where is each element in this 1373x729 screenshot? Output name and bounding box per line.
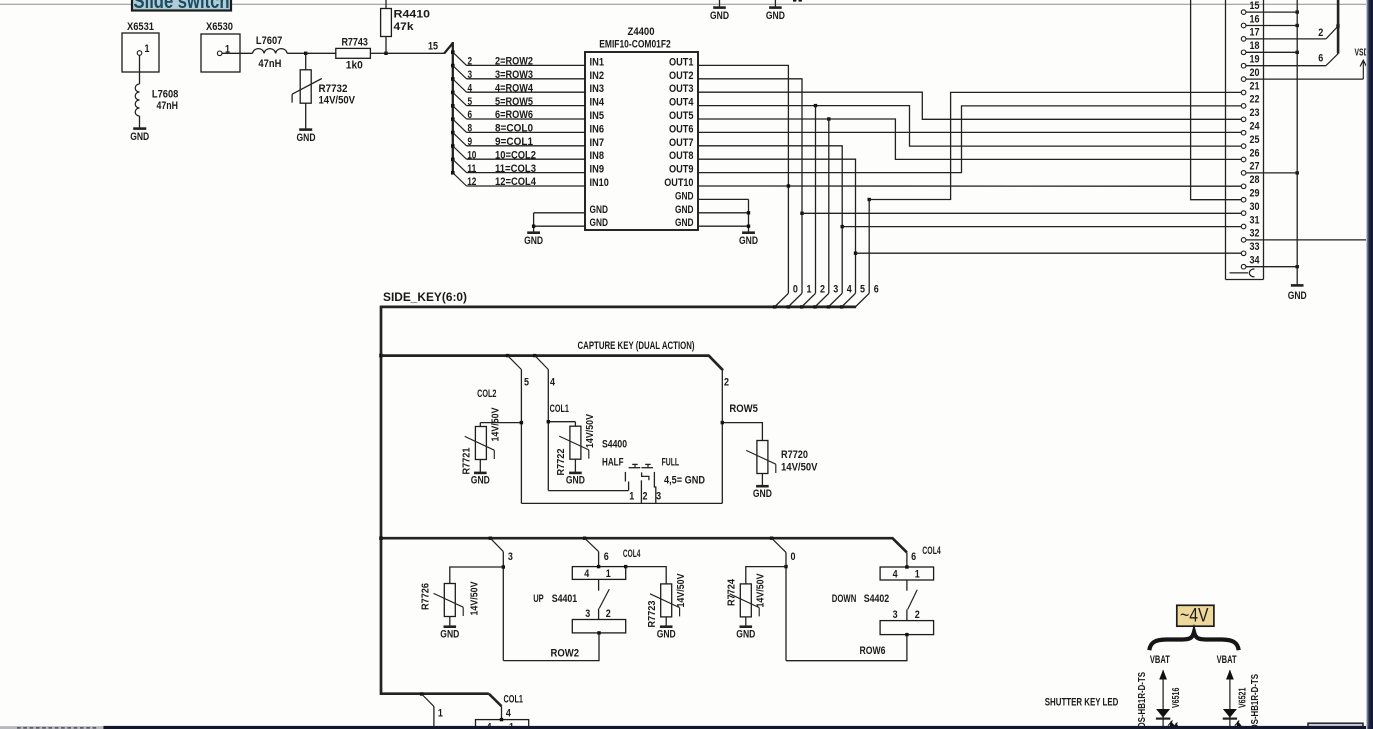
svg-text:22: 22 bbox=[1250, 94, 1260, 106]
connector pin 22 bbox=[1241, 104, 1246, 109]
ground GND (top 1) bbox=[710, 0, 729, 22]
svg-text:2: 2 bbox=[468, 56, 473, 68]
svg-text:GND: GND bbox=[440, 629, 459, 641]
svg-text:20: 20 bbox=[1250, 67, 1260, 79]
svg-text:1: 1 bbox=[629, 491, 634, 503]
svg-text:GND: GND bbox=[566, 475, 585, 487]
wire side-key 6 vertical bbox=[868, 200, 870, 294]
svg-text:18: 18 bbox=[1250, 40, 1260, 52]
junction side-key 2 tap bbox=[814, 104, 817, 107]
connector pin 32 bbox=[1241, 238, 1246, 243]
connector X6531 bbox=[122, 21, 159, 72]
svg-text:2: 2 bbox=[1318, 27, 1323, 39]
svg-text:OUT1: OUT1 bbox=[669, 56, 694, 68]
svg-text:IN2: IN2 bbox=[590, 70, 605, 82]
ground GND (IC right) bbox=[739, 233, 758, 247]
wire R7726 to ground bbox=[449, 617, 451, 627]
svg-text:R7723: R7723 bbox=[646, 600, 658, 627]
wire side-key 5 to connector pin 33 bbox=[856, 252, 1242, 254]
svg-text:14V/50V: 14V/50V bbox=[469, 582, 481, 616]
side-key 0 drop diagonal bbox=[773, 305, 776, 308]
wire pin18 to GND rail bbox=[1246, 51, 1297, 53]
svg-text:6: 6 bbox=[1318, 53, 1323, 65]
connector pin 33 bbox=[1241, 251, 1246, 256]
junction branch0 / R7724 bbox=[784, 565, 787, 568]
connector pin 23 bbox=[1241, 117, 1246, 122]
svg-text:SHUTTER KEY LED: SHUTTER KEY LED bbox=[1045, 697, 1119, 709]
svg-text:V6521: V6521 bbox=[1237, 687, 1249, 708]
svg-text:2: 2 bbox=[724, 377, 729, 389]
partial box bottom-right bbox=[1308, 723, 1363, 729]
wire R7732 to ground bbox=[305, 103, 307, 129]
svg-text:0: 0 bbox=[791, 551, 796, 563]
svg-text:11=COL3: 11=COL3 bbox=[495, 163, 536, 175]
keypad row 5=ROW5 wire bbox=[451, 91, 585, 108]
connector X6530 bbox=[201, 21, 240, 72]
svg-text:2: 2 bbox=[606, 608, 611, 620]
svg-text:GND: GND bbox=[524, 235, 543, 247]
svg-text:GND: GND bbox=[471, 475, 490, 487]
svg-text:19: 19 bbox=[1250, 54, 1260, 66]
svg-text:5=ROW5: 5=ROW5 bbox=[495, 96, 533, 108]
wire side-key 6 to connector pin 21 bbox=[869, 92, 1241, 199]
svg-text:12: 12 bbox=[467, 176, 476, 188]
switch S4401 UP bbox=[533, 565, 627, 635]
wire branch2 vertical bbox=[721, 370, 723, 504]
cut-off marks top bbox=[793, 0, 796, 2]
svg-text:DOWN: DOWN bbox=[832, 593, 857, 605]
keypad row 11=COL3 wire bbox=[451, 158, 585, 175]
svg-text:R7743: R7743 bbox=[341, 37, 368, 49]
wire L7608 to ground bbox=[139, 116, 141, 129]
svg-text:GND: GND bbox=[675, 190, 694, 202]
svg-text:27: 27 bbox=[1250, 161, 1260, 173]
svg-text:HALF: HALF bbox=[602, 456, 624, 468]
svg-text:10=COL2: 10=COL2 bbox=[495, 149, 536, 161]
connector pin 21 bbox=[1241, 90, 1246, 95]
LED V6516 DS-HB1R-D-TS bbox=[1136, 670, 1182, 729]
junction side-key 3 tap bbox=[827, 117, 830, 120]
svg-text:OUT7: OUT7 bbox=[669, 137, 694, 149]
IC Z4400 EMIF10-COM01F2 EMI filter bbox=[585, 26, 698, 230]
svg-text:S4400: S4400 bbox=[602, 439, 627, 451]
svg-text:2: 2 bbox=[643, 491, 648, 503]
svg-text:4=ROW4: 4=ROW4 bbox=[495, 82, 534, 94]
svg-text:1: 1 bbox=[438, 708, 443, 720]
svg-text:GND: GND bbox=[590, 204, 609, 216]
connector pin 24 bbox=[1241, 130, 1246, 135]
svg-text:COL1: COL1 bbox=[550, 403, 569, 415]
svg-text:29: 29 bbox=[1250, 188, 1260, 200]
wire OUT3 to connector pin 23 bbox=[698, 92, 1241, 119]
svg-text:21: 21 bbox=[1250, 80, 1260, 92]
wire pin17 to slide switch pos 2 bbox=[1246, 38, 1326, 40]
svg-text:COL1: COL1 bbox=[504, 694, 524, 706]
switch S4402 DOWN bbox=[832, 565, 934, 636]
svg-text:4: 4 bbox=[550, 377, 556, 389]
svg-text:47k: 47k bbox=[394, 21, 415, 33]
ground GND (connector) bbox=[1288, 285, 1307, 301]
svg-text:IN5: IN5 bbox=[590, 110, 605, 122]
connector pin 29 bbox=[1241, 197, 1246, 202]
svg-text:15: 15 bbox=[428, 41, 438, 53]
svg-text:R7720: R7720 bbox=[781, 449, 808, 461]
wire branch1 vertical bbox=[433, 706, 435, 729]
svg-text:OUT3: OUT3 bbox=[669, 83, 694, 95]
svg-text:6=ROW6: 6=ROW6 bbox=[495, 109, 533, 121]
wire S4400 bottom rail bbox=[521, 502, 722, 504]
svg-text:6: 6 bbox=[874, 284, 879, 296]
wire OUT10 to connector pin 28 bbox=[698, 185, 1241, 187]
connector pin 31 bbox=[1241, 224, 1246, 229]
wire side-key 1 to connector pin 30 bbox=[802, 212, 1241, 214]
svg-text:IN1: IN1 bbox=[590, 56, 605, 68]
junction side-key 4 / pin31 bbox=[841, 225, 844, 228]
svg-text:OUT9: OUT9 bbox=[669, 164, 694, 176]
connector pin 18 bbox=[1241, 50, 1246, 55]
svg-text:1: 1 bbox=[915, 569, 920, 581]
svg-text:V6516: V6516 bbox=[1170, 687, 1182, 708]
varistor R7732 14V/50V (mirrored) bbox=[292, 53, 355, 106]
brace under ~4V bbox=[1149, 632, 1238, 650]
connector pin 20 bbox=[1241, 77, 1246, 82]
svg-text:47nH: 47nH bbox=[258, 58, 281, 70]
svg-text:GND: GND bbox=[1288, 290, 1307, 302]
node branch 6 (S4401) bbox=[583, 537, 586, 540]
resistor R4410 47k bbox=[381, 0, 430, 53]
svg-text:24: 24 bbox=[1250, 121, 1261, 133]
svg-text:25: 25 bbox=[1250, 134, 1260, 146]
wire R7722 to ground bbox=[574, 459, 576, 473]
wire node B to bus, pin 15 bbox=[386, 52, 445, 54]
connector pin 27 bbox=[1241, 171, 1246, 176]
wire IC left GND pins bbox=[534, 212, 585, 214]
svg-text:GND: GND bbox=[297, 132, 316, 144]
svg-text:S4402: S4402 bbox=[864, 593, 890, 605]
svg-text:DS-HB1R-D-TS: DS-HB1R-D-TS bbox=[1249, 674, 1261, 729]
wire branch4 vertical bbox=[547, 370, 549, 491]
svg-text:4: 4 bbox=[468, 82, 473, 94]
svg-text:1: 1 bbox=[606, 568, 611, 580]
svg-text:R7722: R7722 bbox=[555, 448, 567, 475]
svg-text:4: 4 bbox=[584, 568, 590, 580]
wire L7607 to node A bbox=[287, 52, 306, 54]
ground GND (IC left) bbox=[524, 233, 543, 247]
GND rail vertical (connector) bbox=[1296, 0, 1298, 285]
wire branch3 to S4401 row bbox=[503, 633, 599, 661]
svg-text:3: 3 bbox=[585, 608, 590, 620]
keypad row 2=ROW2 wire bbox=[451, 50, 585, 67]
connector pin 30 bbox=[1241, 211, 1246, 216]
wire branch3 vertical bbox=[502, 552, 504, 661]
connector pin 15 bbox=[1241, 10, 1246, 15]
ground GND (R7732) bbox=[297, 130, 316, 144]
svg-text:14V/50V: 14V/50V bbox=[584, 414, 596, 448]
svg-text:GND: GND bbox=[710, 10, 729, 22]
svg-text:9: 9 bbox=[468, 136, 473, 148]
node ROW5 bbox=[721, 421, 724, 424]
wire S4401 to R7723 bbox=[626, 567, 667, 584]
junction left GND bbox=[532, 225, 535, 228]
svg-text:EMIF10-COM01F2: EMIF10-COM01F2 bbox=[599, 39, 671, 51]
wire pin34 to GND rail bbox=[1246, 266, 1297, 268]
junction side-key 1 / pin30 bbox=[800, 212, 803, 215]
node branch 6 (S4402) bbox=[906, 552, 908, 567]
node A junction bbox=[304, 52, 307, 55]
svg-text:ROW6: ROW6 bbox=[860, 645, 886, 657]
lower key branch (thick) bbox=[379, 536, 383, 540]
svg-text:GND: GND bbox=[675, 217, 694, 229]
ground GND (R7721) bbox=[471, 473, 490, 487]
svg-text:47nH: 47nH bbox=[157, 100, 179, 112]
svg-text:CAPTURE KEY (DUAL ACTION): CAPTURE KEY (DUAL ACTION) bbox=[578, 340, 695, 352]
svg-text:34: 34 bbox=[1250, 255, 1261, 267]
junction slide pos2 bbox=[1336, 24, 1339, 27]
bus bottom diagonal to COL1 bbox=[489, 694, 502, 707]
wire pin20 to VSD bbox=[1246, 78, 1363, 80]
svg-text:L7607: L7607 bbox=[256, 35, 283, 47]
connector pin 25 bbox=[1241, 144, 1246, 149]
svg-text:2=ROW2: 2=ROW2 bbox=[495, 56, 533, 68]
svg-text:GND: GND bbox=[590, 217, 609, 229]
svg-text:3: 3 bbox=[508, 551, 513, 563]
svg-text:X6530: X6530 bbox=[206, 21, 233, 33]
svg-text:VBAT: VBAT bbox=[1217, 654, 1237, 666]
svg-text:R4410: R4410 bbox=[394, 9, 431, 21]
svg-text:COL4: COL4 bbox=[922, 545, 941, 557]
wire pin29 riser from top edge bbox=[1191, 0, 1242, 200]
power VSD arrow bbox=[1362, 62, 1364, 79]
inductor L7607 47nH bbox=[253, 35, 288, 70]
junction branch3 / R7726 bbox=[502, 565, 505, 568]
switch S4400 capture key bbox=[602, 439, 705, 504]
svg-text:VBAT: VBAT bbox=[1150, 654, 1170, 666]
resistor R7743 1k0 bbox=[336, 37, 371, 72]
ground GND (R7723) bbox=[657, 627, 676, 641]
junction R7721/branch5 bbox=[520, 421, 523, 424]
wire branch4 to S4400 pin1 bbox=[548, 490, 628, 492]
LED V6521 DS-HB1R-D-TS bbox=[1223, 670, 1261, 729]
wire side-key 3 vertical bbox=[828, 119, 830, 293]
junction R7722/branch4 bbox=[547, 420, 550, 423]
svg-text:6: 6 bbox=[911, 551, 916, 563]
svg-text:4,5= GND: 4,5= GND bbox=[664, 475, 705, 487]
wire branch0 to S4402 row bbox=[786, 635, 907, 661]
svg-text:2: 2 bbox=[915, 609, 920, 621]
connector X (board-to-board, pins 15-34) bbox=[1226, 0, 1264, 280]
svg-text:GND: GND bbox=[753, 488, 772, 500]
wire node A to R7743 bbox=[306, 52, 336, 54]
varistor R7722 14V/50V bbox=[548, 414, 596, 476]
wire R7743 to node B bbox=[370, 52, 386, 54]
svg-text:14V/50V: 14V/50V bbox=[319, 95, 356, 107]
svg-text:IN3: IN3 bbox=[590, 83, 605, 95]
node branch 1 (bottom) bbox=[420, 692, 423, 695]
svg-text:Slide switch: Slide switch bbox=[134, 0, 230, 13]
svg-text:~4V: ~4V bbox=[1180, 606, 1209, 627]
wire OUT1 to side-key 0 bbox=[698, 65, 788, 293]
right page border bbox=[1366, 0, 1367, 729]
wire pin32 to edge bbox=[1246, 239, 1367, 241]
side-key 4 drop diagonal bbox=[827, 305, 830, 308]
svg-text:ROW5: ROW5 bbox=[729, 403, 758, 415]
wire OUT9 to connector pin 22 bbox=[698, 106, 1241, 173]
svg-text:OUT5: OUT5 bbox=[669, 110, 694, 122]
svg-text:4: 4 bbox=[893, 569, 899, 581]
svg-text:15: 15 bbox=[1250, 0, 1260, 12]
svg-text:UP: UP bbox=[533, 593, 544, 605]
wire OUT8 to side-key 5 bbox=[698, 159, 856, 293]
svg-text:8: 8 bbox=[468, 123, 473, 135]
svg-text:IN4: IN4 bbox=[590, 97, 605, 109]
svg-text:1: 1 bbox=[145, 43, 150, 55]
varistor R7723 14V/50V bbox=[646, 574, 687, 628]
wire X6531 pin1 to L7608 bbox=[139, 55, 141, 84]
side-key 1 drop diagonal bbox=[787, 305, 790, 308]
bottom taskbar bbox=[0, 726, 103, 729]
svg-text:26: 26 bbox=[1250, 147, 1260, 159]
svg-text:10: 10 bbox=[467, 149, 476, 161]
varistor R7721 14V/50V bbox=[460, 408, 521, 475]
keypad row 9=COL1 wire bbox=[451, 131, 585, 148]
svg-text:17: 17 bbox=[1250, 27, 1260, 39]
svg-text:FULL: FULL bbox=[662, 456, 680, 468]
wire pin15 to GND rail bbox=[1246, 11, 1297, 13]
svg-text:8=COL0: 8=COL0 bbox=[495, 123, 533, 135]
switch (bottom, cut off) bbox=[476, 718, 529, 729]
svg-text:SIDE_KEY(6:0): SIDE_KEY(6:0) bbox=[383, 292, 467, 304]
wire OUT7 to side-key 4 bbox=[698, 146, 842, 293]
side-key 5 drop diagonal bbox=[840, 305, 843, 308]
svg-text:IN9: IN9 bbox=[590, 164, 605, 176]
wire X6530 pin1 to L7607 bbox=[222, 52, 253, 54]
wire R7723 to ground bbox=[665, 617, 667, 627]
keypad row 10=COL2 wire bbox=[451, 144, 585, 161]
svg-text:IN10: IN10 bbox=[590, 177, 609, 189]
svg-text:1k0: 1k0 bbox=[346, 60, 363, 72]
svg-text:OUT10: OUT10 bbox=[664, 177, 693, 189]
svg-text:R7724: R7724 bbox=[725, 579, 737, 606]
svg-text:GND: GND bbox=[675, 204, 694, 216]
slide switch common rail (thick) bbox=[1337, 0, 1340, 54]
svg-text:5: 5 bbox=[468, 96, 473, 108]
svg-text:GND: GND bbox=[739, 235, 758, 247]
connector pin 16 bbox=[1241, 23, 1246, 28]
keypad row 4=ROW4 wire bbox=[451, 77, 585, 94]
svg-text:L7608: L7608 bbox=[152, 89, 179, 101]
svg-text:DS-HB1R-D-TS: DS-HB1R-D-TS bbox=[1136, 672, 1148, 728]
keypad row 8=COL0 wire bbox=[451, 117, 585, 134]
svg-text:12=COL4: 12=COL4 bbox=[495, 176, 537, 188]
wire R7721 to ground bbox=[479, 460, 481, 473]
svg-text:9=COL1: 9=COL1 bbox=[495, 136, 533, 148]
ground GND (X6531) bbox=[130, 129, 149, 143]
svg-text:3: 3 bbox=[833, 284, 838, 296]
ground GND (top 2) bbox=[766, 0, 785, 22]
svg-text:OUT8: OUT8 bbox=[669, 150, 694, 162]
svg-text:4: 4 bbox=[506, 708, 512, 720]
wire COL1 drop bbox=[501, 706, 503, 719]
svg-text:32: 32 bbox=[1250, 228, 1260, 240]
wire OUT5 to connector pin 26 bbox=[698, 119, 1241, 159]
connector pin 19 bbox=[1241, 63, 1246, 68]
svg-text:23: 23 bbox=[1250, 107, 1260, 119]
capture key branch (thick) bbox=[379, 354, 383, 358]
svg-text:GND: GND bbox=[736, 629, 755, 641]
keypad row 3=ROW3 wire bbox=[451, 64, 585, 81]
ground GND (R7720) bbox=[753, 486, 772, 500]
svg-text:R7732: R7732 bbox=[319, 83, 348, 95]
wire pin27 to GND rail bbox=[1246, 172, 1297, 174]
svg-text:16: 16 bbox=[1250, 13, 1260, 25]
wire side-key 4 to connector pin 31 bbox=[842, 226, 1241, 228]
svg-text:GND: GND bbox=[766, 10, 785, 22]
wire pin19 to slide switch pos 6 bbox=[1246, 65, 1326, 67]
wire branch0 vertical bbox=[785, 552, 787, 660]
svg-text:33: 33 bbox=[1250, 241, 1260, 253]
connector pin 17 bbox=[1241, 37, 1246, 42]
wire OUT2 to side-key 1 bbox=[698, 79, 802, 293]
node B junction bbox=[384, 52, 387, 55]
svg-text:3: 3 bbox=[656, 491, 661, 503]
varistor R7720 14V/50V bbox=[746, 441, 818, 474]
svg-text:OUT6: OUT6 bbox=[669, 123, 694, 135]
svg-text:4: 4 bbox=[847, 284, 853, 296]
wire branch5 vertical bbox=[520, 370, 522, 504]
side-key 6 drop diagonal bbox=[855, 293, 869, 307]
wire OUT6 to connector pin 24 bbox=[698, 131, 1241, 133]
svg-text:Z4400: Z4400 bbox=[628, 26, 655, 38]
svg-text:3: 3 bbox=[468, 69, 473, 81]
~4V callout box bbox=[1177, 605, 1214, 626]
varistor R7724 14V/50V bbox=[725, 574, 766, 617]
inductor L7608 47nH bbox=[135, 84, 178, 116]
svg-text:X6531: X6531 bbox=[127, 21, 154, 33]
wire branch0 to R7724 bbox=[746, 567, 786, 584]
svg-text:COL4: COL4 bbox=[623, 548, 641, 560]
svg-text:31: 31 bbox=[1250, 214, 1260, 226]
svg-text:1: 1 bbox=[807, 284, 812, 296]
svg-text:28: 28 bbox=[1250, 174, 1260, 186]
svg-text:14V/50V: 14V/50V bbox=[754, 574, 766, 608]
wire branch3 to R7726 bbox=[450, 567, 504, 584]
junction OUT10 / side-key 0 bbox=[787, 184, 790, 187]
node branch 0 bbox=[770, 537, 773, 540]
side-key 3 drop diagonal bbox=[813, 305, 816, 308]
junction side-key 5 / pin33 bbox=[854, 252, 857, 255]
svg-text:6: 6 bbox=[468, 109, 473, 121]
slide switch title box bbox=[132, 0, 231, 13]
varistor R7726 14V/50V bbox=[420, 582, 481, 617]
svg-text:GND: GND bbox=[657, 629, 676, 641]
bus riser diagonal bbox=[444, 43, 453, 53]
svg-text:3: 3 bbox=[893, 609, 898, 621]
svg-text:IN8: IN8 bbox=[590, 150, 605, 162]
svg-text:6: 6 bbox=[604, 551, 609, 563]
side-key bus SIDE_KEY(6:0) bbox=[381, 307, 856, 694]
ground GND (R7722) bbox=[566, 473, 585, 487]
wire ROW5 to R7720 bbox=[722, 423, 762, 441]
page frame top line bbox=[0, 3, 1366, 5]
wire R7724 to ground bbox=[745, 617, 747, 627]
node branch 3 bbox=[489, 537, 492, 540]
svg-text:R7726: R7726 bbox=[420, 583, 432, 610]
svg-text:COL2: COL2 bbox=[477, 388, 496, 400]
svg-text:5: 5 bbox=[860, 284, 865, 296]
connector pin 26 bbox=[1241, 157, 1246, 162]
wire pin16 to GND rail bbox=[1246, 25, 1297, 27]
svg-text:S4401: S4401 bbox=[552, 593, 578, 605]
